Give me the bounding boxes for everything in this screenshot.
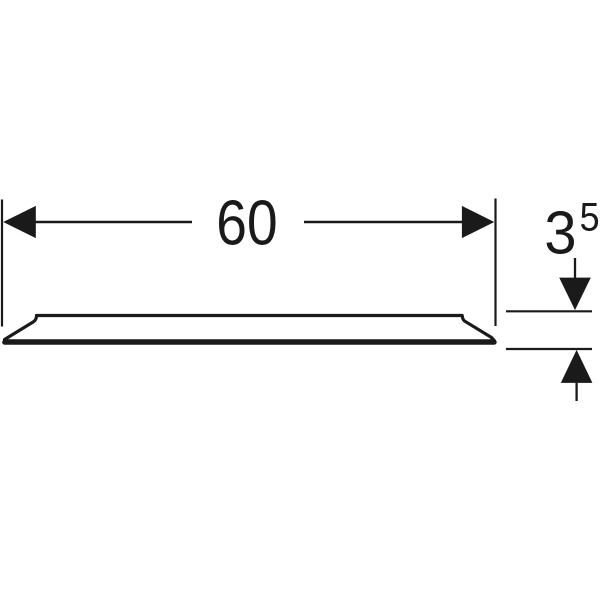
- thickness up-arrow stem: [575, 383, 577, 401]
- bottom witness line: [506, 348, 592, 350]
- thickness down-arrowhead: [559, 278, 591, 311]
- shelf bottom edge thick line: [5, 340, 495, 345]
- label 60: [219, 200, 276, 245]
- left arrowhead: [3, 206, 36, 238]
- thickness up-arrowhead: [561, 350, 593, 383]
- dimension line right segment: [304, 221, 463, 223]
- right extension line: [494, 199, 496, 327]
- left extension line: [1, 200, 3, 327]
- right arrowhead: [462, 206, 494, 238]
- top witness line: [506, 310, 592, 312]
- dimension line left segment: [34, 221, 192, 223]
- thickness down-arrow stem: [574, 258, 576, 279]
- shelf profile outline: [5, 316, 495, 341]
- label 5 superscript: [581, 203, 598, 231]
- label 3: [547, 211, 575, 254]
